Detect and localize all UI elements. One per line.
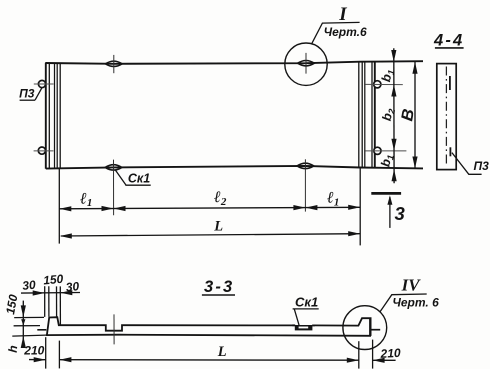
label h [6, 345, 21, 354]
section 3-3 rib and slab top with notch [47, 317, 372, 335]
section 4-4 outline [437, 64, 456, 170]
P3 mark top in 4-4 [449, 76, 451, 90]
P3 mark bottom in 4-4 [449, 147, 451, 156]
section 3-3 right stub [372, 329, 381, 331]
svg-text:I: I [338, 4, 347, 25]
svg-text:IV: IV [401, 275, 422, 294]
svg-text:30: 30 [22, 278, 37, 293]
extension line left for l1 L [58, 169, 60, 244]
svg-text:3: 3 [394, 203, 405, 224]
panel bottom edge [46, 166, 423, 169]
dimension line l1 l2 l1 [59, 207, 360, 209]
detail circle IV [343, 306, 387, 350]
notch centerline [113, 314, 115, 344]
panel top edge [45, 61, 423, 64]
label b2 [380, 107, 397, 122]
svg-text:3-3: 3-3 [204, 278, 234, 296]
svg-text:ℓ1: ℓ1 [326, 190, 339, 209]
lug P3 top-left [38, 80, 45, 87]
leader detail I [312, 22, 360, 44]
leader detail IV [380, 294, 427, 312]
svg-text:h: h [6, 345, 21, 354]
b-chain extension: lug centerlines right [366, 83, 403, 85]
svg-text:Ск1: Ск1 [295, 294, 318, 309]
svg-text:L: L [217, 344, 227, 360]
dimension line b1 b2 b1 [393, 48, 395, 183]
section 3-3 slab bottom extension [12, 335, 45, 336]
extension slab top level [14, 325, 40, 327]
label B [398, 107, 418, 122]
extension lines 210 left [45, 337, 47, 368]
dimension line L section [59, 359, 358, 362]
svg-text:L: L [213, 219, 223, 235]
svg-text:П3: П3 [474, 159, 490, 173]
svg-text:ℓ1: ℓ1 [79, 190, 92, 209]
section mark 3 arrow [389, 197, 391, 228]
section 3-3 right end edge [369, 318, 371, 336]
svg-text:4-4: 4-4 [433, 32, 464, 50]
section 4-4 axis dash-dot [445, 67, 447, 168]
lifting loop bottom-right [297, 163, 314, 168]
svg-text:Черт.6: Черт.6 [324, 25, 367, 39]
svg-text:210: 210 [23, 344, 44, 358]
section 3-3 slab bottom [46, 335, 371, 336]
dimension 210 left tail [29, 359, 46, 361]
svg-text:150: 150 [43, 272, 64, 288]
section mark 3 bar [371, 192, 401, 195]
extension lines 30 150 30 [44, 286, 46, 317]
panel right end rib lines [358, 62, 360, 168]
lug P3 bottom-right [374, 147, 381, 154]
lug P3 bottom-left [38, 147, 45, 154]
label 150 left [3, 293, 20, 315]
label b1 bottom [378, 153, 395, 168]
dimension line 30 150 30 [21, 292, 80, 295]
svg-text:П3: П3 [19, 87, 35, 101]
dimension line B [414, 62, 416, 169]
extension lines 210 right [358, 341, 360, 368]
dimension 210 right tail [373, 359, 396, 361]
svg-text:Черт. 6: Черт. 6 [392, 295, 439, 309]
svg-text:Ск1: Ск1 [128, 172, 150, 186]
lifting loop top-left [105, 61, 122, 66]
detail circle I [285, 43, 327, 85]
svg-text:150: 150 [3, 293, 20, 315]
svg-text:210: 210 [379, 346, 401, 361]
Sk1 insert in 3-3 [295, 325, 313, 330]
lifting loop top-right [298, 61, 315, 66]
extension line right for l1 L [359, 168, 361, 245]
leader P3 right [452, 153, 482, 175]
dimension line L plan [61, 234, 360, 236]
extension rib top level [14, 316, 44, 318]
short line at rib left [37, 329, 46, 331]
dimension line 150 h vertical [22, 301, 24, 347]
panel left end rib lines [45, 63, 47, 169]
label b1 top [379, 68, 396, 83]
svg-text:30: 30 [65, 279, 80, 294]
svg-text:b1: b1 [378, 153, 395, 168]
lifting loop bottom-left [105, 165, 122, 170]
lug P3 top-right [374, 81, 381, 88]
svg-text:ℓ2: ℓ2 [213, 189, 227, 208]
